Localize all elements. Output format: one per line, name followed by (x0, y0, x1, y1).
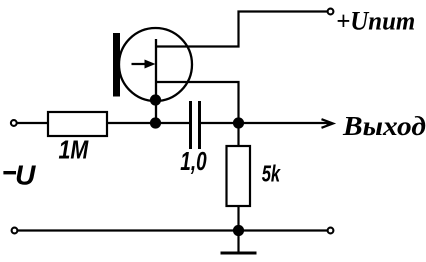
svg-text:U: U (15, 160, 36, 191)
node junction dot ground (233, 225, 244, 236)
wire ground rail (18, 229, 327, 231)
ground stem wire (237, 231, 239, 253)
svg-text:5k: 5k (262, 162, 282, 187)
svg-text:1,0: 1,0 (180, 146, 207, 176)
resistor R1 1M body (48, 112, 107, 136)
label -U (3, 171, 16, 174)
transistor V1 gate electrode (thick bar) (113, 33, 120, 97)
transistor V1 arrowhead (145, 60, 156, 69)
transistor V1 envelope circle (119, 28, 192, 101)
wire input to R1 (17, 122, 48, 124)
transistor V1 channel line (155, 39, 157, 123)
terminal input (open circle) (11, 120, 17, 126)
svg-text:1M: 1M (59, 136, 90, 164)
terminal bottom-right (open circle) (328, 228, 334, 234)
terminal +Upit (open circle) (328, 9, 334, 15)
svg-text:+Uпит: +Uпит (336, 6, 415, 36)
ground bar (221, 252, 257, 255)
node junction dot output (233, 117, 244, 128)
wire C1 to output (201, 122, 331, 124)
capacitor C1 right plate (198, 101, 201, 149)
wire output node to R2 (237, 123, 239, 146)
capacitor C1 left plate (189, 101, 192, 149)
terminal bottom-left (open circle) (12, 228, 18, 234)
node junction dot gate/input (150, 117, 161, 128)
wire R2 to ground rail (237, 206, 239, 231)
resistor R2 5k body (227, 146, 251, 206)
wire source lead down to output node (156, 82, 239, 123)
svg-text:Выход: Выход (342, 112, 426, 142)
wire R1 to C1 (107, 122, 189, 124)
wire drain lead to +Upit (156, 12, 327, 47)
transistor V1 substrate arrow lead (132, 63, 149, 65)
output arrowhead (322, 119, 334, 128)
node junction dot on envelope bottom (150, 94, 161, 105)
